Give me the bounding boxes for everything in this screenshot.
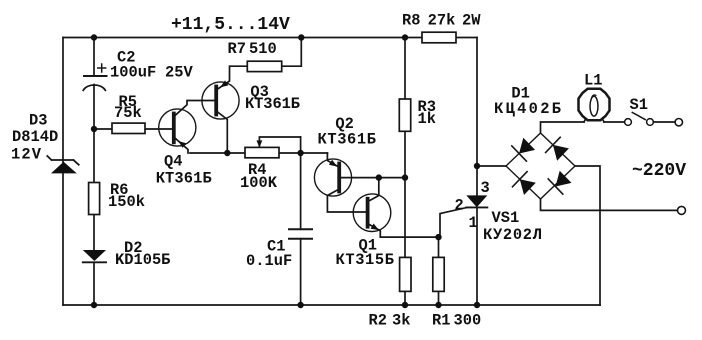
resistor R1 [433, 257, 444, 291]
wire Q4 emitter to R4 node [176, 139, 189, 154]
wire R4 wiper [259, 137, 300, 146]
wire Q3 emitter to R7 [217, 66, 247, 89]
svg-text:25V: 25V [165, 64, 193, 82]
wire switch to terminal [653, 121, 674, 123]
node bottom rail / R2 [402, 302, 408, 308]
wire Q2 emitter elbow [327, 153, 338, 167]
wire left rail [62, 38, 64, 306]
node top rail / R7 [298, 34, 304, 40]
svg-text:~220V: ~220V [632, 161, 686, 181]
svg-text:R7: R7 [228, 40, 246, 58]
thyristor VS1 [440, 195, 487, 237]
svg-text:75k: 75k [114, 104, 142, 122]
svg-text:+11,5...14V: +11,5...14V [171, 15, 290, 35]
svg-text:0.1uF: 0.1uF [246, 252, 292, 270]
capacitor C2 [83, 64, 106, 90]
wire Q2 collector to Q1 base [327, 190, 366, 213]
resistor R4 potentiometer [245, 137, 301, 158]
svg-text:VS1: VS1 [492, 209, 520, 227]
node R3 / R2 [402, 174, 408, 180]
svg-text:КТ315Б: КТ315Б [336, 251, 395, 269]
wire Q4 collector to Q3 base [175, 101, 215, 116]
svg-text:1k: 1k [418, 110, 436, 128]
wire Q1 emitter row [368, 224, 439, 238]
wire VS1 gate [440, 208, 467, 238]
svg-text:L1: L1 [584, 71, 602, 89]
svg-text:3: 3 [481, 179, 490, 197]
svg-text:D3: D3 [29, 112, 47, 130]
svg-text:Q4: Q4 [164, 153, 182, 171]
svg-text:R1: R1 [432, 312, 450, 330]
svg-text:S1: S1 [630, 96, 648, 114]
resistor R2 [400, 257, 411, 291]
wire R1 to bottom rail [438, 291, 440, 305]
lamp L1 [579, 89, 610, 122]
wire lamp to switch [604, 121, 625, 123]
resistor R8 [422, 32, 456, 43]
node bottom rail / C1 [297, 302, 303, 308]
wire R2 to bottom rail [404, 291, 406, 305]
svg-text:КТ361Б: КТ361Б [156, 169, 212, 187]
capacitor C1 [289, 229, 312, 238]
diode D1 lower-right [556, 171, 572, 187]
terminal lower AC [678, 206, 686, 214]
wire bridge top to lamp row [541, 122, 585, 133]
wire bridge bottom to lower terminal [541, 199, 678, 210]
node dots [91, 34, 480, 308]
diode D2 [83, 250, 106, 262]
wire Q2 base row [340, 177, 405, 179]
wire R7 right to rail [282, 38, 301, 67]
wire bridge right corner return [576, 166, 601, 305]
svg-text:100uF: 100uF [110, 64, 156, 82]
wire anode node to bridge [477, 165, 506, 167]
svg-text:KD105Б: KD105Б [115, 251, 170, 269]
node R4 / C1 [297, 150, 303, 156]
wire thyristor anode line [476, 38, 478, 306]
transistor Q3 [202, 66, 247, 153]
svg-text:12V: 12V [11, 145, 42, 163]
node Q3 collector / R4 [224, 150, 230, 156]
transistor Q2 [314, 153, 405, 212]
node top rail / C2 [91, 34, 97, 40]
svg-text:R2: R2 [369, 312, 387, 330]
svg-text:150k: 150k [108, 193, 145, 211]
svg-text:D814D: D814D [12, 128, 58, 146]
wire R1 branch [438, 237, 440, 257]
svg-text:2: 2 [455, 196, 464, 214]
wire C2/R6 branch [93, 38, 95, 306]
bridge rectifier D1 [506, 133, 575, 199]
node bottom rail / R1 [435, 302, 441, 308]
terminal upper AC [675, 119, 682, 126]
svg-text:3k: 3k [392, 312, 410, 330]
svg-text:1: 1 [469, 214, 478, 232]
wire R3 branch from rail [404, 38, 406, 100]
svg-text:КТ361Б: КТ361Б [245, 95, 300, 113]
svg-text:27k: 27k [428, 12, 456, 30]
node bottom rail / D2 [91, 302, 97, 308]
wire R3 to node and R2 [404, 131, 406, 257]
svg-text:2W: 2W [462, 12, 481, 30]
node bottom rail / VS1 [474, 302, 480, 308]
diode D1 lower-left [520, 179, 536, 195]
svg-text:КТ361Б: КТ361Б [318, 131, 377, 149]
node gate / R1 [435, 234, 441, 240]
wire Q3 collector down [217, 112, 227, 154]
wire top supply rail [63, 37, 477, 39]
resistor R7 [247, 61, 281, 71]
svg-text:КУ202Л: КУ202Л [483, 226, 542, 244]
svg-text:100K: 100K [240, 174, 278, 192]
resistor R6 [89, 183, 100, 215]
transistor Q1 [353, 178, 438, 238]
wire R4 node row [190, 152, 327, 154]
svg-text:300: 300 [454, 312, 482, 330]
node Q1 collector / base row [376, 174, 382, 180]
wire C1 branch [300, 137, 302, 305]
svg-text:R8: R8 [402, 12, 420, 30]
switch S1 [625, 112, 654, 125]
svg-text:510: 510 [249, 40, 277, 58]
transistor Q4 [159, 101, 215, 154]
zener diode D3 [47, 156, 78, 173]
diode D1 upper-right [553, 145, 569, 161]
node R5 / C2 branch [91, 126, 97, 132]
diode D1 upper-left [519, 138, 535, 154]
wire R5 leads [94, 128, 172, 130]
resistor R3 [399, 99, 410, 131]
wire Q1 collector [368, 178, 379, 202]
node anode / bridge [474, 163, 480, 169]
node top rail / R3 [402, 34, 408, 40]
resistor R5 [112, 123, 145, 133]
wire bottom rail [63, 304, 600, 306]
